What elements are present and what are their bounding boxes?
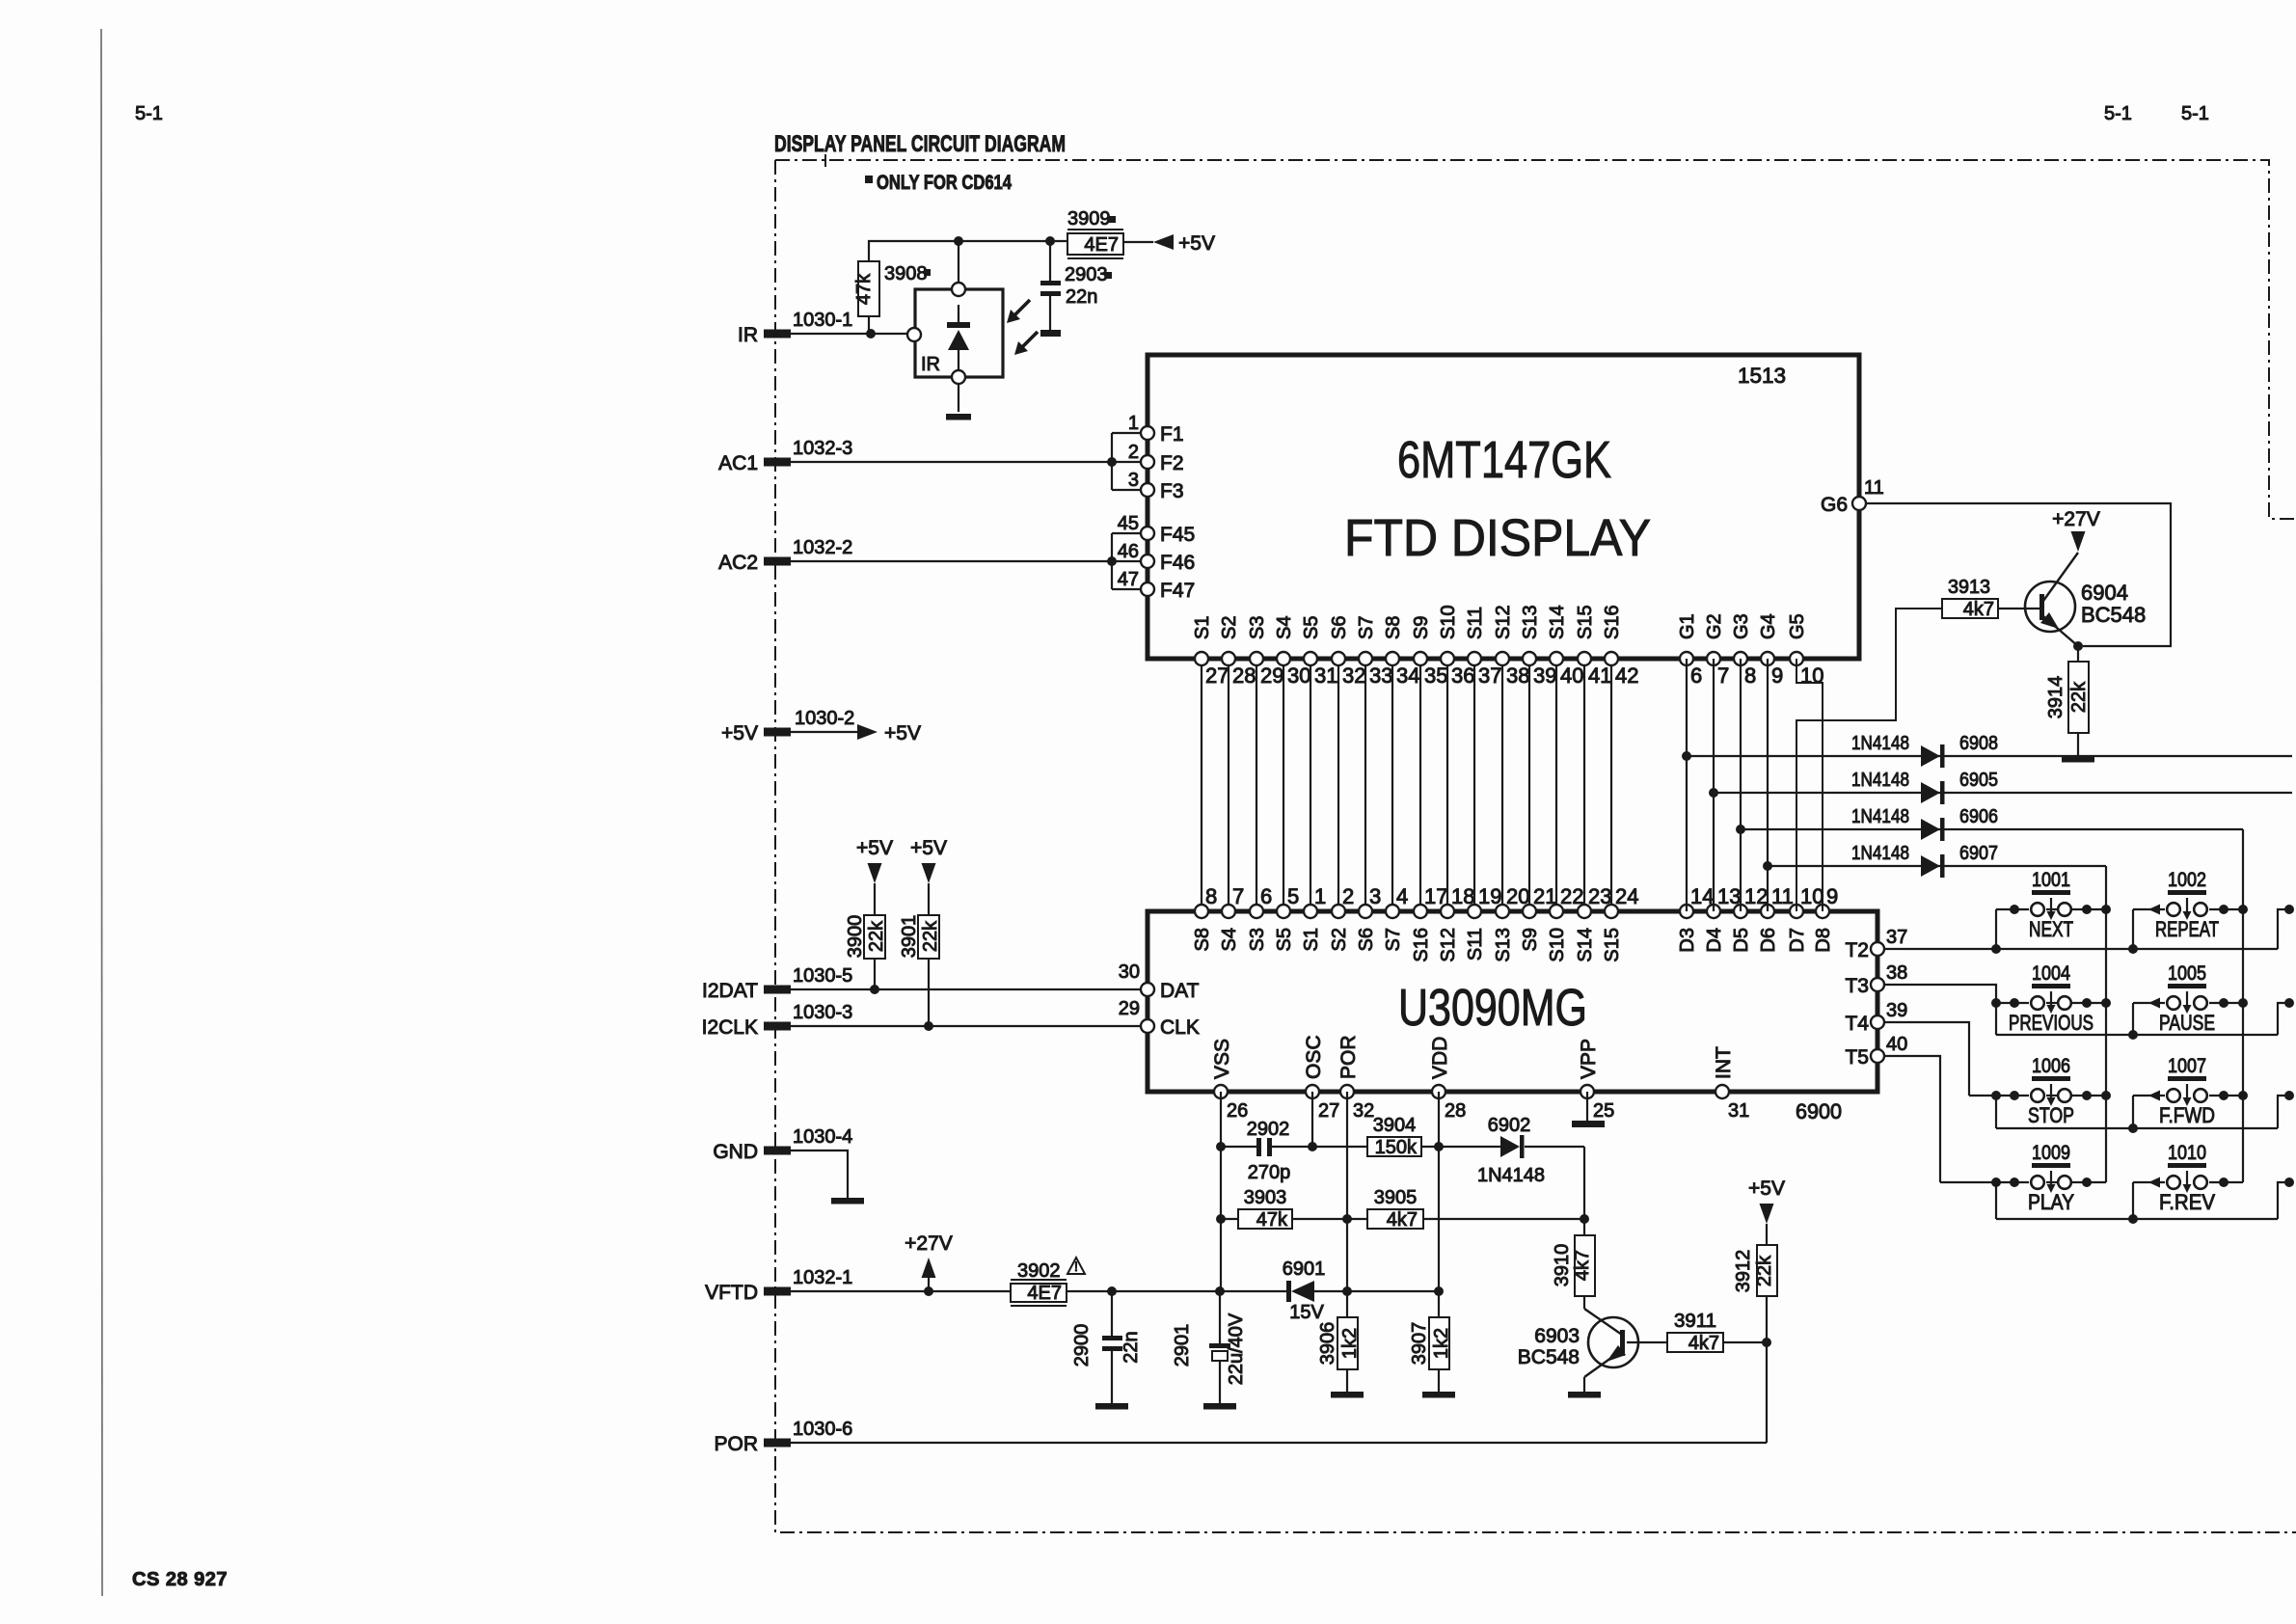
svg-text:29: 29 <box>1260 663 1283 688</box>
svg-text:47k: 47k <box>853 273 875 305</box>
svg-text:2900: 2900 <box>1071 1324 1093 1367</box>
svg-text:22k: 22k <box>920 920 941 952</box>
svg-text:8: 8 <box>1744 663 1756 688</box>
svg-text:T3: T3 <box>1845 975 1869 997</box>
svg-text:CLK: CLK <box>1160 1016 1200 1039</box>
svg-text:3907: 3907 <box>1409 1322 1430 1366</box>
svg-text:DISPLAY PANEL CIRCUIT DIAGRAM: DISPLAY PANEL CIRCUIT DIAGRAM <box>774 131 1066 157</box>
svg-text:38: 38 <box>1886 962 1907 984</box>
svg-text:1513: 1513 <box>1738 364 1786 388</box>
svg-text:4E7: 4E7 <box>1084 234 1119 256</box>
svg-text:30: 30 <box>1287 663 1310 688</box>
svg-text:270p: 270p <box>1248 1162 1291 1183</box>
svg-text:CS 28 927: CS 28 927 <box>132 1569 228 1590</box>
svg-text:41: 41 <box>1588 663 1611 688</box>
svg-text:3901: 3901 <box>899 915 920 959</box>
svg-text:4k7: 4k7 <box>1387 1209 1418 1231</box>
svg-text:6908: 6908 <box>1959 733 1998 754</box>
svg-text:5: 5 <box>1287 884 1299 908</box>
svg-text:150k: 150k <box>1375 1137 1418 1158</box>
svg-text:S10: S10 <box>1438 605 1459 639</box>
svg-text:3905: 3905 <box>1374 1187 1418 1208</box>
svg-text:37: 37 <box>1478 663 1501 688</box>
svg-text:F2: F2 <box>1160 452 1184 474</box>
svg-text:S6: S6 <box>1356 928 1377 951</box>
svg-text:INT: INT <box>1713 1046 1735 1079</box>
svg-text:3913: 3913 <box>1948 577 1990 598</box>
svg-text:47: 47 <box>1118 569 1139 590</box>
svg-text:1010: 1010 <box>2168 1142 2206 1164</box>
svg-text:28: 28 <box>1445 1100 1466 1122</box>
svg-text:3912: 3912 <box>1733 1250 1754 1293</box>
svg-text:6907: 6907 <box>1959 843 1998 864</box>
svg-text:S10: S10 <box>1547 928 1568 962</box>
svg-text:ONLY FOR CD614: ONLY FOR CD614 <box>877 172 1012 194</box>
svg-text:3900: 3900 <box>845 915 866 959</box>
svg-text:I2DAT: I2DAT <box>702 980 758 1002</box>
svg-text:D5: D5 <box>1731 928 1752 953</box>
svg-text:1030-2: 1030-2 <box>795 708 854 729</box>
svg-text:S12: S12 <box>1493 605 1514 639</box>
svg-text:+5V: +5V <box>884 722 921 744</box>
svg-text:G1: G1 <box>1677 613 1698 639</box>
svg-text:1032-2: 1032-2 <box>793 537 852 558</box>
svg-text:VDD: VDD <box>1429 1037 1451 1079</box>
svg-text:STOP: STOP <box>2028 1103 2074 1127</box>
svg-text:1N4148: 1N4148 <box>1851 843 1909 864</box>
svg-text:S8: S8 <box>1192 928 1213 951</box>
svg-text:6902: 6902 <box>1488 1115 1531 1136</box>
svg-text:34: 34 <box>1396 663 1419 688</box>
svg-text:S5: S5 <box>1301 616 1322 639</box>
svg-text:1009: 1009 <box>2032 1142 2070 1164</box>
svg-text:22k: 22k <box>2068 681 2090 713</box>
svg-text:S6: S6 <box>1329 616 1350 639</box>
svg-text:IR: IR <box>738 324 758 346</box>
svg-text:F45: F45 <box>1160 524 1195 546</box>
svg-text:+5V: +5V <box>1178 232 1215 255</box>
svg-text:37: 37 <box>1886 927 1907 948</box>
svg-text:S12: S12 <box>1438 928 1459 962</box>
svg-text:GND: GND <box>713 1141 758 1163</box>
svg-text:22k: 22k <box>866 920 887 952</box>
svg-text:1004: 1004 <box>2032 962 2070 985</box>
svg-text:5-1: 5-1 <box>2104 103 2132 124</box>
svg-text:1: 1 <box>1128 413 1139 434</box>
svg-text:POR: POR <box>714 1433 758 1455</box>
svg-text:1032-1: 1032-1 <box>793 1267 852 1288</box>
svg-text:6900: 6900 <box>1796 1099 1842 1123</box>
svg-text:25: 25 <box>1593 1100 1614 1122</box>
svg-text:VFTD: VFTD <box>705 1282 758 1304</box>
svg-text:S11: S11 <box>1465 607 1486 639</box>
svg-text:32: 32 <box>1342 663 1365 688</box>
svg-text:3903: 3903 <box>1244 1187 1287 1208</box>
svg-text:I2CLK: I2CLK <box>702 1016 758 1039</box>
svg-text:33: 33 <box>1369 663 1392 688</box>
svg-text:PLAY: PLAY <box>2028 1190 2074 1214</box>
svg-text:REPEAT: REPEAT <box>2155 917 2219 941</box>
svg-text:D7: D7 <box>1787 928 1808 953</box>
svg-text:38: 38 <box>1506 663 1529 688</box>
svg-text:31: 31 <box>1728 1100 1749 1122</box>
svg-text:S15: S15 <box>1602 928 1623 962</box>
svg-text:F47: F47 <box>1160 580 1195 602</box>
svg-text:+27V: +27V <box>2052 508 2100 530</box>
svg-text:2: 2 <box>1342 884 1354 908</box>
svg-text:30: 30 <box>1119 961 1140 983</box>
svg-text:S4: S4 <box>1219 928 1240 951</box>
svg-text:3911: 3911 <box>1674 1311 1716 1332</box>
svg-text:S13: S13 <box>1493 928 1514 962</box>
svg-text:1005: 1005 <box>2168 962 2206 985</box>
svg-text:1007: 1007 <box>2168 1055 2206 1077</box>
svg-text:S7: S7 <box>1383 928 1404 951</box>
svg-text:S1: S1 <box>1192 616 1213 639</box>
svg-text:D8: D8 <box>1813 928 1834 953</box>
svg-text:5-1: 5-1 <box>2181 103 2209 124</box>
svg-text:S8: S8 <box>1383 616 1404 639</box>
svg-text:S14: S14 <box>1547 605 1568 639</box>
svg-text:1002: 1002 <box>2168 869 2206 891</box>
svg-text:G5: G5 <box>1787 613 1808 639</box>
svg-text:F1: F1 <box>1160 423 1184 446</box>
svg-text:22n: 22n <box>1121 1331 1142 1363</box>
svg-text:1: 1 <box>1314 884 1326 908</box>
svg-text:11: 11 <box>1864 477 1884 499</box>
svg-text:3: 3 <box>1369 884 1381 908</box>
svg-text:2903: 2903 <box>1065 264 1108 285</box>
svg-text:1N4148: 1N4148 <box>1851 770 1909 791</box>
svg-text:VPP: VPP <box>1578 1039 1600 1079</box>
svg-text:VSS: VSS <box>1211 1039 1233 1079</box>
svg-text:S16: S16 <box>1411 928 1432 962</box>
svg-text:6MT147GK: 6MT147GK <box>1397 431 1611 489</box>
svg-text:U3090MG: U3090MG <box>1398 979 1587 1037</box>
svg-text:G3: G3 <box>1731 613 1752 639</box>
svg-text:1030-1: 1030-1 <box>793 310 852 331</box>
svg-text:40: 40 <box>1560 663 1583 688</box>
svg-text:27: 27 <box>1205 663 1229 688</box>
svg-text:7: 7 <box>1232 884 1244 908</box>
svg-text:1001: 1001 <box>2032 869 2070 891</box>
svg-text:40: 40 <box>1886 1034 1907 1055</box>
svg-text:10: 10 <box>1800 663 1823 688</box>
svg-text:BC548: BC548 <box>2081 603 2146 627</box>
svg-text:3904: 3904 <box>1373 1115 1417 1136</box>
svg-text:S4: S4 <box>1274 616 1295 639</box>
svg-text:3908: 3908 <box>884 263 928 284</box>
svg-text:S15: S15 <box>1575 605 1596 639</box>
svg-text:S14: S14 <box>1575 928 1596 962</box>
svg-text:FTD DISPLAY: FTD DISPLAY <box>1344 509 1651 567</box>
svg-text:1N4148: 1N4148 <box>1851 806 1909 827</box>
svg-text:1030-6: 1030-6 <box>793 1419 852 1440</box>
svg-text:1030-4: 1030-4 <box>793 1126 852 1148</box>
svg-text:39: 39 <box>1886 1000 1907 1021</box>
svg-text:26: 26 <box>1227 1100 1248 1122</box>
svg-text:F3: F3 <box>1160 480 1184 502</box>
svg-text:T2: T2 <box>1845 939 1869 961</box>
svg-text:BC548: BC548 <box>1518 1346 1580 1368</box>
svg-text:22n: 22n <box>1066 286 1097 308</box>
svg-text:1N4148: 1N4148 <box>1477 1165 1545 1186</box>
svg-text:AC1: AC1 <box>718 452 758 474</box>
svg-text:NEXT: NEXT <box>2029 917 2073 941</box>
svg-text:S9: S9 <box>1520 928 1541 951</box>
svg-text:4: 4 <box>1396 884 1408 908</box>
svg-text:4k7: 4k7 <box>1688 1333 1719 1354</box>
svg-text:6: 6 <box>1260 884 1272 908</box>
svg-text:G2: G2 <box>1704 613 1725 639</box>
svg-text:31: 31 <box>1314 663 1337 688</box>
svg-text:PAUSE: PAUSE <box>2159 1011 2215 1035</box>
svg-text:+5V: +5V <box>721 722 758 744</box>
svg-text:22u/40V: 22u/40V <box>1226 1313 1247 1385</box>
svg-text:1k2: 1k2 <box>1431 1328 1452 1359</box>
svg-text:S16: S16 <box>1602 605 1623 639</box>
svg-text:DAT: DAT <box>1160 980 1200 1002</box>
svg-text:G4: G4 <box>1758 613 1779 639</box>
svg-text:6: 6 <box>1690 663 1702 688</box>
svg-text:4k7: 4k7 <box>1963 599 1994 620</box>
svg-text:+5V: +5V <box>856 837 893 859</box>
svg-text:4E7: 4E7 <box>1027 1283 1062 1304</box>
svg-text:6906: 6906 <box>1959 806 1998 827</box>
svg-text:S2: S2 <box>1329 928 1350 951</box>
svg-text:3909: 3909 <box>1067 208 1111 230</box>
svg-text:D3: D3 <box>1677 928 1698 953</box>
svg-text:36: 36 <box>1451 663 1474 688</box>
svg-text:AC2: AC2 <box>718 552 758 574</box>
svg-text:D4: D4 <box>1704 928 1725 953</box>
svg-text:2902: 2902 <box>1247 1119 1290 1140</box>
svg-text:9: 9 <box>1771 663 1783 688</box>
svg-text:+5V: +5V <box>910 837 947 859</box>
svg-text:27: 27 <box>1318 1100 1339 1122</box>
svg-text:S3: S3 <box>1247 616 1268 639</box>
svg-text:32: 32 <box>1353 1100 1374 1122</box>
svg-text:6904: 6904 <box>2081 581 2128 605</box>
svg-text:46: 46 <box>1118 541 1139 562</box>
svg-text:S5: S5 <box>1274 928 1295 951</box>
svg-text:F.REV: F.REV <box>2159 1190 2215 1214</box>
svg-text:6903: 6903 <box>1534 1325 1580 1347</box>
svg-text:1030-5: 1030-5 <box>793 965 852 987</box>
svg-text:3906: 3906 <box>1317 1322 1338 1366</box>
svg-text:1k2: 1k2 <box>1339 1328 1361 1359</box>
svg-text:5-1: 5-1 <box>135 103 163 124</box>
svg-text:39: 39 <box>1533 663 1556 688</box>
svg-text:24: 24 <box>1615 884 1638 908</box>
svg-text:1006: 1006 <box>2032 1055 2070 1077</box>
svg-text:F.FWD: F.FWD <box>2159 1103 2215 1127</box>
svg-text:2: 2 <box>1128 442 1139 463</box>
svg-text:47k: 47k <box>1256 1209 1288 1231</box>
svg-text:+27V: +27V <box>905 1232 953 1255</box>
svg-text:+5V: +5V <box>1748 1177 1785 1200</box>
svg-text:POR: POR <box>1337 1035 1360 1079</box>
svg-text:3902: 3902 <box>1017 1260 1061 1282</box>
svg-text:IR: IR <box>921 354 940 375</box>
svg-text:4k7: 4k7 <box>1572 1250 1593 1281</box>
svg-text:45: 45 <box>1118 513 1139 534</box>
svg-text:S13: S13 <box>1520 605 1541 639</box>
svg-text:3910: 3910 <box>1552 1244 1573 1287</box>
svg-text:3914: 3914 <box>2045 676 2066 719</box>
svg-text:D6: D6 <box>1758 928 1779 953</box>
svg-text:S1: S1 <box>1301 928 1322 951</box>
svg-text:!: ! <box>1074 1259 1078 1274</box>
svg-text:F46: F46 <box>1160 552 1195 574</box>
svg-text:S11: S11 <box>1465 928 1486 961</box>
svg-text:1030-3: 1030-3 <box>793 1002 852 1023</box>
svg-text:S3: S3 <box>1247 928 1268 951</box>
svg-text:T4: T4 <box>1845 1013 1869 1035</box>
svg-text:6905: 6905 <box>1959 770 1998 791</box>
svg-text:3: 3 <box>1128 470 1139 491</box>
svg-text:6901: 6901 <box>1283 1259 1326 1280</box>
svg-text:S7: S7 <box>1356 616 1377 639</box>
svg-text:22k: 22k <box>1754 1255 1775 1286</box>
svg-text:S9: S9 <box>1411 616 1432 639</box>
svg-text:11: 11 <box>1771 884 1794 908</box>
svg-text:T5: T5 <box>1845 1046 1869 1069</box>
svg-text:8: 8 <box>1205 884 1217 908</box>
svg-text:7: 7 <box>1717 663 1729 688</box>
svg-text:9: 9 <box>1826 884 1838 908</box>
svg-text:S2: S2 <box>1219 616 1240 639</box>
svg-text:35: 35 <box>1424 663 1447 688</box>
svg-text:15V: 15V <box>1289 1302 1324 1323</box>
svg-text:2901: 2901 <box>1172 1324 1193 1367</box>
svg-text:42: 42 <box>1615 663 1638 688</box>
svg-text:28: 28 <box>1232 663 1256 688</box>
svg-text:G6: G6 <box>1821 494 1848 516</box>
svg-text:29: 29 <box>1119 998 1140 1019</box>
svg-text:1032-3: 1032-3 <box>793 438 852 459</box>
svg-text:PREVIOUS: PREVIOUS <box>2009 1011 2093 1035</box>
svg-text:1N4148: 1N4148 <box>1851 733 1909 754</box>
svg-text:OSC: OSC <box>1303 1035 1325 1079</box>
